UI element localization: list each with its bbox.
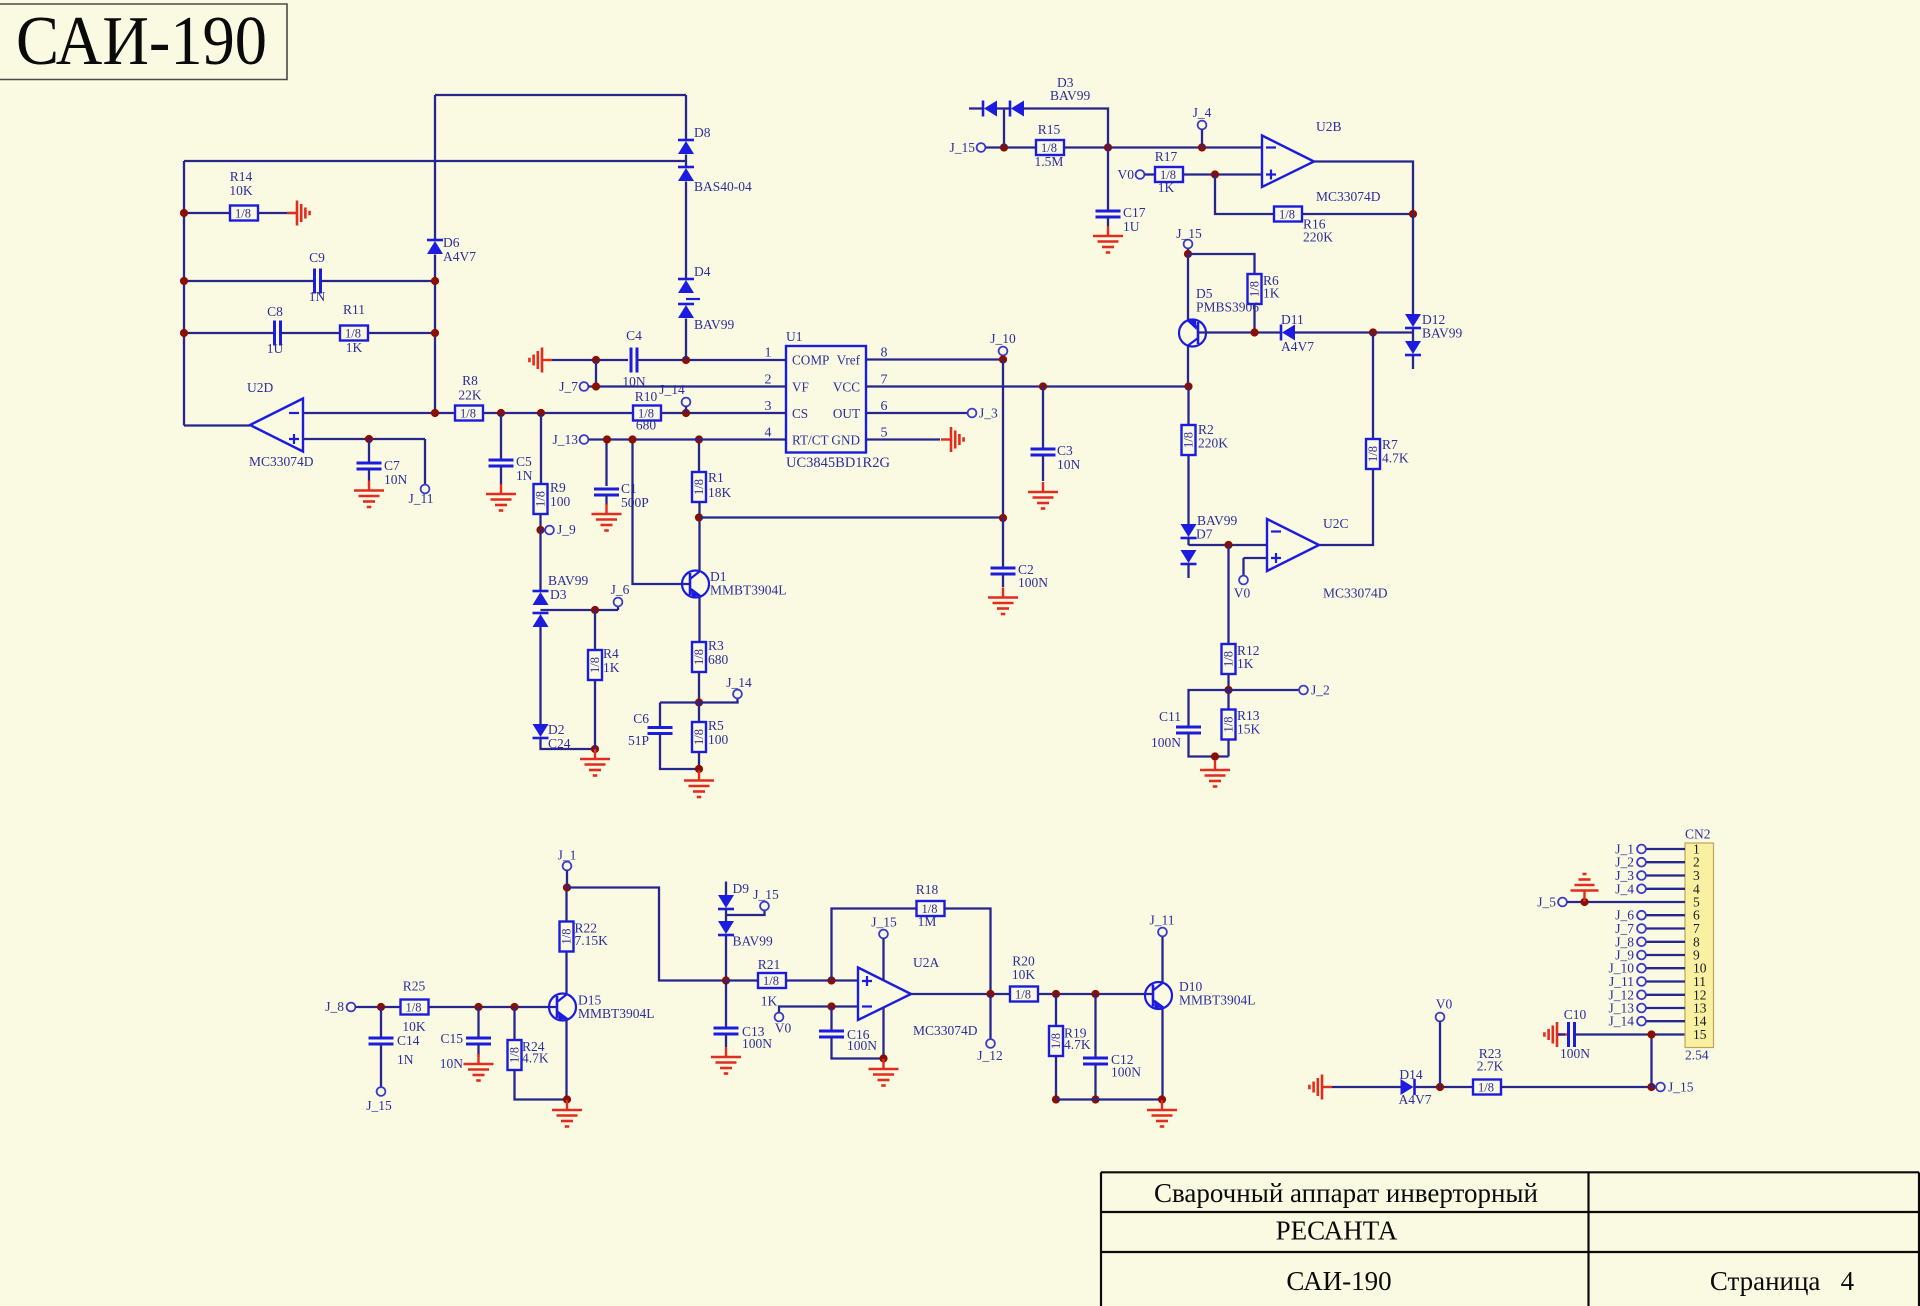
svg-text:100N: 100N	[847, 1038, 877, 1053]
svg-text:R9: R9	[550, 480, 566, 495]
svg-text:1/8: 1/8	[508, 1047, 522, 1063]
svg-text:D14: D14	[1399, 1067, 1422, 1082]
terminal J_10	[1637, 964, 1646, 973]
wire D3 left stub	[969, 107, 983, 109]
wire R13 top	[1227, 690, 1229, 710]
wire R20 to D10	[1037, 993, 1153, 995]
chassis ground at R14	[287, 201, 310, 226]
svg-text:500P: 500P	[621, 495, 649, 510]
wire R19 top	[1055, 994, 1057, 1026]
wire D5 emitter	[1187, 254, 1189, 320]
ground under C11/R13	[1200, 760, 1230, 787]
svg-text:1U: 1U	[1123, 219, 1140, 234]
wire C2 row	[699, 516, 1003, 518]
terminal J_15 at U2A	[879, 930, 888, 939]
wire V0 drop	[1439, 1022, 1441, 1088]
svg-text:J_5: J_5	[1537, 895, 1556, 910]
ground under R5	[684, 771, 714, 798]
svg-text:BAV99: BAV99	[1422, 326, 1463, 341]
svg-text:220K: 220K	[1303, 230, 1333, 245]
terminal J_10	[999, 347, 1008, 356]
junction C16/ground	[879, 1054, 887, 1062]
capacitor C17	[1096, 211, 1121, 217]
ground under C2	[988, 588, 1018, 615]
junction R19 tap	[1052, 990, 1060, 998]
svg-text:MMBT3904L: MMBT3904L	[1179, 993, 1256, 1008]
wire ground to D14	[1332, 1086, 1401, 1088]
svg-text:MMBT3904L: MMBT3904L	[578, 1006, 655, 1021]
junction C3 tap	[1039, 382, 1047, 390]
wire top rail	[435, 94, 686, 96]
svg-text:10N: 10N	[1057, 457, 1081, 472]
svg-text:PMBS3906: PMBS3906	[1196, 300, 1259, 315]
wire CN2 pin 6	[1646, 914, 1685, 916]
junction R9 tap	[537, 409, 545, 417]
terminal V0 top	[1136, 170, 1145, 179]
diode D12 upper	[1405, 314, 1421, 328]
wire R25 to D15 base	[429, 1006, 558, 1008]
wire C13 stub	[725, 981, 727, 1029]
resistor R14	[230, 206, 258, 221]
svg-text:10N: 10N	[384, 472, 408, 487]
transistor D1	[682, 571, 709, 598]
wire pin8 to J_10	[866, 358, 1003, 360]
svg-text:V0: V0	[1118, 167, 1135, 182]
svg-text:100N: 100N	[1560, 1046, 1590, 1061]
svg-text:100: 100	[550, 494, 571, 509]
svg-text:10K: 10K	[402, 1019, 426, 1034]
svg-text:D4: D4	[694, 264, 711, 279]
title box frame	[0, 4, 287, 80]
svg-text:VF: VF	[792, 380, 809, 395]
wire R14 right	[258, 212, 296, 214]
terminal J_15 bottom right	[1656, 1083, 1665, 1092]
svg-text:J_14: J_14	[659, 382, 685, 397]
wire C9 left	[184, 280, 314, 282]
wire R23 to J_15	[1501, 1086, 1652, 1088]
wire CN2 pin 9	[1646, 954, 1685, 956]
wire U2D minus input	[303, 412, 455, 414]
svg-text:J_14: J_14	[726, 675, 752, 690]
svg-text:1/8: 1/8	[1049, 1033, 1063, 1049]
svg-text:RT/CT: RT/CT	[792, 433, 829, 448]
terminal V0 at U2A	[775, 1013, 784, 1022]
terminal J_2	[1299, 686, 1308, 695]
terminal J_9	[545, 526, 554, 535]
svg-text:1/8: 1/8	[560, 929, 574, 945]
svg-text:1/8: 1/8	[1279, 208, 1295, 222]
junction C7 tap	[365, 435, 373, 443]
capacitor C10	[1569, 1022, 1575, 1047]
wire R24 bottom	[515, 1070, 568, 1100]
ground under D15	[552, 1100, 582, 1127]
wire C11 branch	[1189, 690, 1229, 727]
wire J_6 stub	[617, 607, 619, 611]
wire ground to C10 red	[1558, 1033, 1565, 1035]
terminal J_6	[614, 598, 623, 607]
svg-text:САИ-190: САИ-190	[1286, 1266, 1391, 1296]
wire C9 right	[321, 280, 435, 282]
svg-text:U2D: U2D	[247, 380, 273, 395]
wire second rail	[184, 160, 686, 162]
terminal J_4	[1198, 121, 1207, 130]
wire R16 right	[1302, 213, 1413, 215]
terminal J_1	[1637, 845, 1646, 854]
wire CN2 pin 3	[1646, 874, 1685, 876]
svg-text:5: 5	[881, 426, 888, 441]
wire R5 top	[698, 703, 700, 723]
wire R24 top	[513, 1007, 515, 1040]
svg-text:1N: 1N	[516, 468, 533, 483]
junction C12 foot	[1091, 1095, 1099, 1103]
terminal J_14 lower	[733, 690, 742, 699]
wire D1 emitter to R3	[698, 598, 700, 643]
svg-text:R1: R1	[708, 470, 724, 485]
wire J_14 lower stub	[699, 699, 738, 703]
svg-text:220K: 220K	[1198, 436, 1228, 451]
svg-text:J_15: J_15	[871, 915, 897, 930]
svg-text:1U: 1U	[267, 341, 284, 356]
svg-text:1/8: 1/8	[1366, 446, 1380, 462]
wire C6 bottom	[660, 734, 699, 769]
wire CN2 pin 11	[1646, 980, 1685, 982]
wire C17 stub	[1107, 148, 1109, 212]
svg-text:10N: 10N	[440, 1056, 464, 1071]
svg-text:18K: 18K	[708, 485, 732, 500]
op-amp U2B	[1262, 136, 1314, 188]
wire R7 top	[1372, 333, 1374, 440]
terminal J_12	[1637, 990, 1646, 999]
wire U2D output to bus	[184, 424, 250, 426]
op-amp U2C	[1267, 519, 1319, 571]
resistor R22	[560, 922, 574, 952]
junction R12 tap	[1224, 541, 1232, 549]
wire C7 to ground	[368, 469, 370, 481]
wire V0 stub at U2C	[1242, 558, 1244, 576]
wire CN2 pin 1	[1646, 848, 1685, 850]
junction C16 tap	[827, 1002, 835, 1010]
wire C16 bottom	[832, 1037, 884, 1059]
wire C2 stub	[1002, 518, 1004, 568]
svg-text:1/8: 1/8	[534, 491, 548, 507]
resistor R3	[692, 642, 706, 672]
terminal J_4	[1637, 884, 1646, 893]
capacitor C7	[357, 463, 382, 469]
svg-text:1/8: 1/8	[692, 729, 706, 745]
transistor D5	[1179, 320, 1206, 347]
junction J_9	[536, 526, 544, 534]
resistor R15	[1036, 140, 1064, 155]
wire J_10 column	[1002, 360, 1004, 519]
terminal J_2	[1637, 858, 1646, 867]
wire R11 right	[368, 332, 435, 334]
svg-text:U2A: U2A	[913, 955, 939, 970]
svg-text:C9: C9	[309, 250, 325, 265]
svg-text:C11: C11	[1159, 709, 1181, 724]
wire R13 bottom	[1227, 740, 1229, 757]
wire V0 to R17	[1145, 173, 1156, 175]
svg-text:R10: R10	[635, 389, 658, 404]
op-amp U2D	[250, 399, 303, 452]
junction ground rail	[591, 745, 599, 753]
center tap tick	[686, 298, 700, 300]
svg-text:J_3: J_3	[979, 406, 998, 421]
chassis ground at pin5	[941, 427, 964, 452]
junction C1 tap	[603, 435, 611, 443]
wire BAV99 to pin1 row	[685, 319, 687, 361]
svg-text:15: 15	[1693, 1027, 1707, 1042]
wire U2A output	[911, 993, 1010, 995]
svg-text:7: 7	[881, 373, 888, 388]
svg-text:10K: 10K	[1012, 967, 1036, 982]
title block frame	[1101, 1172, 1919, 1306]
svg-text:J_13: J_13	[552, 432, 578, 447]
wire pin15 riser	[1650, 1035, 1652, 1088]
wire J_1 to D9 node	[567, 888, 726, 981]
svg-text:U2C: U2C	[1323, 516, 1349, 531]
diode D4 upper	[678, 279, 694, 293]
junction C5 tap	[497, 409, 505, 417]
svg-text:Сварочный аппарат инверторный: Сварочный аппарат инверторный	[1154, 1178, 1538, 1208]
svg-text:2.7K: 2.7K	[1477, 1059, 1504, 1074]
wire D11 to D12 column	[1295, 331, 1413, 333]
svg-text:РЕСАНТА: РЕСАНТА	[1276, 1216, 1398, 1246]
svg-text:J_2: J_2	[1311, 683, 1330, 698]
resistor R5	[692, 722, 706, 752]
terminal J_5	[1558, 898, 1567, 907]
wire J_7 column	[595, 360, 597, 387]
junction D1 base tap	[628, 435, 636, 443]
svg-text:MC33074D: MC33074D	[1316, 189, 1381, 204]
svg-text:COMP: COMP	[792, 353, 829, 368]
IC U1 box	[786, 346, 866, 453]
svg-text:1/8: 1/8	[1222, 717, 1236, 733]
diode D3 lower half	[533, 613, 549, 627]
svg-text:1K: 1K	[1237, 656, 1254, 671]
wire D3 to corner	[1024, 109, 1108, 148]
svg-text:BAV99: BAV99	[548, 573, 589, 588]
svg-text:4.7K: 4.7K	[1382, 451, 1409, 466]
junction C8/bus	[180, 329, 188, 337]
junction C9/D6 column	[431, 277, 439, 285]
svg-text:J_15: J_15	[949, 140, 975, 155]
wire U2C plus stub	[1244, 557, 1268, 559]
wire ground to C4	[552, 359, 628, 361]
wire RTCT to D1 base	[633, 440, 691, 585]
wire R16 left	[1215, 175, 1274, 215]
diode D3 top right	[1010, 101, 1024, 117]
wire CN2 pin 7	[1646, 927, 1685, 929]
junction pin15	[1647, 1030, 1655, 1038]
junction D5 emitter/R6	[1184, 250, 1192, 258]
junction R16 tap	[1211, 170, 1219, 178]
junction J_12/R18	[986, 990, 994, 998]
svg-text:8: 8	[881, 346, 888, 361]
svg-text:САИ-190: САИ-190	[16, 3, 267, 80]
wire D3 mid row	[541, 609, 619, 611]
resistor R13	[1222, 710, 1236, 740]
terminal V0 bottom right	[1436, 1013, 1445, 1022]
terminal J_7	[1637, 924, 1646, 933]
diode D8 lower (BAS40-04)	[678, 167, 694, 181]
junction C14 tap	[377, 1003, 385, 1011]
junction R6 foot	[1250, 328, 1258, 336]
wire C16 stub	[830, 1007, 832, 1032]
junction J_7	[592, 382, 600, 390]
junction J_14 tap	[682, 409, 690, 417]
junction J_5 ground	[1580, 898, 1588, 906]
wire U2A vminus stub	[882, 1008, 884, 1059]
svg-text:C8: C8	[267, 304, 283, 319]
wire D6 column	[434, 95, 436, 413]
terminal J_3	[968, 409, 977, 418]
junction C12 tap	[1091, 990, 1099, 998]
wire R9 bottom	[539, 514, 541, 530]
svg-text:51P: 51P	[628, 733, 649, 748]
svg-text:C14: C14	[397, 1033, 420, 1048]
wire C14 to J_15	[380, 1044, 382, 1087]
svg-text:BAV99: BAV99	[694, 317, 735, 332]
svg-text:V0: V0	[1234, 586, 1251, 601]
ground under D10	[1147, 1100, 1177, 1127]
chassis ground at C10	[1544, 1022, 1567, 1047]
svg-text:10K: 10K	[229, 183, 253, 198]
wire C10 to CN2 pin15	[1575, 1033, 1686, 1035]
diode D4 lower (BAV99)	[678, 304, 694, 318]
svg-text:R4: R4	[603, 646, 619, 661]
resistor R17	[1155, 167, 1183, 182]
svg-text:100N: 100N	[742, 1036, 772, 1051]
terminal J_6	[1637, 911, 1646, 920]
svg-text:C10: C10	[1564, 1007, 1587, 1022]
terminal J_8	[347, 1003, 356, 1012]
svg-text:D7: D7	[1196, 527, 1213, 542]
wire C15 to ground	[477, 1044, 479, 1057]
wire C7 stub	[368, 439, 370, 463]
wire J_15 stub br	[1652, 1086, 1657, 1088]
svg-text:C4: C4	[626, 328, 642, 343]
svg-text:Vref: Vref	[837, 353, 861, 368]
svg-text:J_10: J_10	[990, 331, 1016, 346]
wire C2 to ground	[1002, 574, 1004, 587]
wire J_12 stub	[989, 994, 991, 1039]
wire J_15 power stub	[882, 939, 884, 981]
svg-text:1/8: 1/8	[1015, 988, 1031, 1002]
svg-text:R8: R8	[462, 373, 478, 388]
junction emitter ground	[563, 1095, 571, 1103]
junction D3 drop	[1000, 143, 1008, 151]
wire R1 to D1 collector	[698, 502, 700, 571]
wire R3 bottom	[698, 672, 700, 703]
capacitor C8	[275, 321, 281, 346]
wire R5 bottom	[698, 752, 700, 769]
svg-text:2: 2	[765, 373, 772, 388]
ground under C1	[592, 504, 622, 531]
junction R19 foot	[1052, 1095, 1060, 1103]
svg-text:22K: 22K	[458, 388, 482, 403]
wire feedback left	[832, 909, 917, 981]
svg-text:1/8: 1/8	[1478, 1081, 1494, 1095]
wire output down to D12	[1412, 214, 1414, 314]
wire C12 bottom	[1094, 1064, 1096, 1100]
resistor R6	[1248, 274, 1262, 304]
diode D7 upper	[1181, 524, 1197, 538]
resistor R8	[455, 406, 483, 421]
wire C6 top link	[660, 701, 699, 703]
junction D9/C13/R21	[722, 976, 730, 984]
terminal J_15 top left	[977, 143, 986, 152]
svg-text:U2B: U2B	[1316, 119, 1342, 134]
svg-text:Страница 4: Страница 4	[1710, 1266, 1855, 1296]
svg-text:J_14: J_14	[1608, 1014, 1634, 1029]
svg-text:1/8: 1/8	[345, 327, 361, 341]
junction BAV99/pin1	[682, 356, 690, 364]
svg-text:3: 3	[765, 399, 772, 414]
transistor D10	[1145, 982, 1172, 1009]
wire D12 bottom stub	[1412, 356, 1414, 370]
terminal V0 at U2C	[1239, 576, 1248, 585]
svg-text:1/8: 1/8	[763, 974, 779, 988]
wire D7 bottom stub	[1187, 565, 1189, 579]
wire R2 to D7	[1187, 455, 1189, 524]
wire D5 base to R6 foot	[1198, 331, 1281, 333]
wire CN2 pin 14	[1646, 1020, 1685, 1022]
svg-text:2.54: 2.54	[1685, 1048, 1709, 1063]
junction J_10	[999, 355, 1007, 363]
resistor R10	[633, 406, 661, 421]
wire R1 top	[698, 440, 700, 473]
resistor R20	[1010, 987, 1038, 1002]
wire D3 mid stub	[997, 107, 1010, 109]
terminal J_14	[1637, 1017, 1646, 1026]
svg-text:1/8: 1/8	[235, 207, 251, 221]
svg-text:1M: 1M	[918, 914, 937, 929]
wire C3 to ground	[1042, 455, 1044, 481]
diode D9 lower	[718, 921, 734, 935]
wire C13 to ground	[725, 1034, 727, 1047]
wire J_14 stub	[685, 407, 687, 414]
svg-text:15K: 15K	[1237, 722, 1261, 737]
svg-text:C3: C3	[1057, 443, 1073, 458]
junction R1/pin4 row	[695, 435, 703, 443]
diode D6 A4V7	[427, 240, 443, 254]
capacitor C3	[1031, 449, 1056, 455]
svg-text:1.5M: 1.5M	[1035, 154, 1064, 169]
svg-text:J_11: J_11	[408, 491, 433, 506]
wire R22 top	[565, 888, 567, 922]
svg-text:J_12: J_12	[977, 1048, 1003, 1063]
svg-text:1/8: 1/8	[1182, 432, 1196, 448]
capacitor C13	[714, 1028, 739, 1034]
wire CN2 pin 4	[1646, 888, 1685, 890]
svg-text:BAS40-04: BAS40-04	[694, 179, 752, 194]
resistor R1	[692, 472, 706, 502]
junction R1/C2 row	[695, 513, 703, 521]
junction R18 feedback	[827, 976, 835, 984]
wire D9 top stub	[725, 882, 727, 896]
wire D3 junction drop	[1003, 109, 1005, 148]
svg-text:1/8: 1/8	[460, 407, 476, 421]
wire R9 top	[540, 413, 542, 484]
terminal J_13	[1637, 1004, 1646, 1013]
transistor D15	[549, 994, 576, 1021]
wire pin7 row	[866, 385, 1189, 387]
terminal J_11 at D10	[1158, 928, 1167, 937]
connector CN2 body	[1685, 843, 1714, 1048]
svg-text:680: 680	[708, 652, 729, 667]
svg-text:V0: V0	[775, 1021, 792, 1036]
svg-text:7.15K: 7.15K	[575, 933, 609, 948]
